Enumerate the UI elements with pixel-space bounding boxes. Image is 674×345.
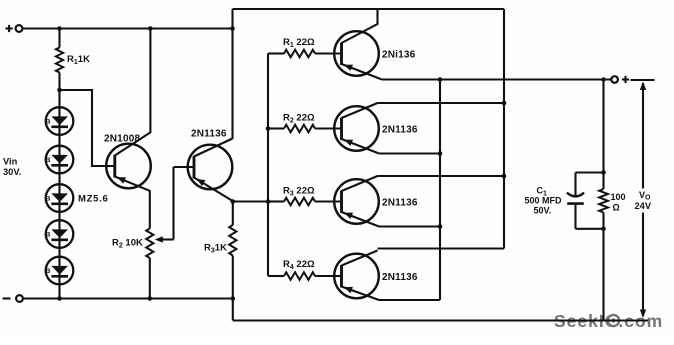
wire output line [382, 77, 611, 82]
wire diode link 3 [58, 212, 60, 220]
zener diode D2 MZ5.6 [46, 146, 74, 174]
svg-text:30V.: 30V. [3, 167, 21, 177]
svg-text:Vin: Vin [3, 157, 18, 167]
svg-text:R2 10K: R2 10K [112, 238, 143, 250]
zener diode D3 MZ5.6 [46, 184, 74, 212]
transistor Q3 2Ni136 [334, 9, 415, 80]
svg-text:R3 22Ω: R3 22Ω [283, 186, 315, 198]
transistor Q2 2N1136 [174, 129, 234, 202]
svg-text:2N1136: 2N1136 [382, 272, 418, 283]
watermark SeekIC.com [554, 311, 663, 331]
wire Q2 emitter to feed bus [233, 200, 268, 202]
zener diode D1 MZ5.6 [46, 107, 74, 135]
svg-text:500 MFD: 500 MFD [525, 196, 563, 206]
terminal + output [611, 76, 629, 83]
svg-text:R1 22Ω: R1 22Ω [283, 37, 315, 49]
zener diode D4 MZ5.6 [46, 220, 74, 248]
wire zener reference tap [57, 88, 114, 166]
resistor R3 22ohm [268, 186, 342, 206]
wire bottom line [233, 319, 648, 321]
svg-text:B: B [46, 157, 51, 164]
wire top box line [233, 9, 505, 29]
wire Q1 collector to rail [149, 29, 151, 133]
node branch bottom [576, 227, 606, 232]
terminal + input [6, 25, 23, 32]
capacitor C1 500MFD [525, 173, 585, 229]
svg-text:2Ni136: 2Ni136 [382, 50, 416, 61]
wire diode link 1 [58, 135, 60, 146]
wire collector bus [503, 9, 505, 249]
wire Q5 collector [378, 174, 507, 179]
svg-text:B: B [46, 196, 51, 203]
svg-text:MZ5.6: MZ5.6 [78, 194, 108, 205]
transistor Q1 2N1008 [92, 132, 151, 190]
svg-text:B: B [46, 119, 51, 126]
svg-text:B: B [46, 232, 51, 239]
wire ground rail [23, 296, 235, 301]
wire Q5 emitter [379, 224, 442, 229]
wire Q6 emitter [379, 299, 440, 301]
svg-text:2N1136: 2N1136 [191, 129, 227, 140]
svg-text:100: 100 [611, 192, 626, 202]
svg-text:R4 22Ω: R4 22Ω [283, 259, 315, 271]
wire diode chain to ground [58, 284, 60, 298]
svg-text:2N1136: 2N1136 [382, 198, 418, 209]
svg-text:R2 22Ω: R2 22Ω [283, 113, 315, 125]
wire output sense branch [602, 80, 604, 173]
potentiometer R2 10K [112, 229, 153, 299]
svg-text:50V.: 50V. [534, 206, 552, 216]
wire Q1 emitter to pot [149, 190, 151, 228]
zener diode D5 MZ5.6 [46, 257, 74, 285]
wire base feed bus [266, 54, 271, 277]
node branch top [576, 170, 606, 175]
wire branch to bottom line [602, 229, 604, 321]
svg-text:2N1008: 2N1008 [104, 134, 140, 145]
node Q2 emitter junction [231, 199, 236, 204]
wire top rail +30V [22, 26, 234, 31]
label Vin 30V [3, 157, 21, 178]
resistor 100 ohm [599, 173, 625, 229]
terminal - input [3, 295, 23, 302]
label V0 24V [635, 190, 652, 211]
transistor Q5 2N1136 [334, 176, 418, 227]
svg-text:B: B [46, 268, 51, 275]
resistor R1 1K [56, 29, 90, 108]
resistor R2 22ohm [268, 113, 342, 133]
wire Q4 collector [378, 101, 507, 106]
wire diode link 4 [58, 248, 60, 257]
wire diode link 2 [58, 173, 60, 184]
transistor Q6 2N1136 [334, 251, 418, 301]
wire emitter bus [439, 80, 441, 301]
transistor Q4 2N1136 [334, 103, 418, 154]
wire Q6 collector [378, 247, 505, 249]
svg-text:Ω: Ω [613, 203, 620, 213]
wire Q4 emitter [379, 151, 442, 156]
resistor R4 22ohm [268, 259, 342, 280]
resistor R3 1K [204, 202, 236, 321]
resistor R1 22ohm [268, 37, 342, 57]
wire Q2 collector to rail [231, 29, 233, 139]
svg-text:R11K: R11K [67, 54, 90, 66]
svg-text:2N1136: 2N1136 [382, 125, 418, 136]
wiper arm R2 [155, 167, 174, 243]
svg-text:R31K: R31K [204, 243, 227, 255]
measurement arrow V0 [631, 80, 655, 318]
svg-text:24V: 24V [635, 201, 652, 211]
